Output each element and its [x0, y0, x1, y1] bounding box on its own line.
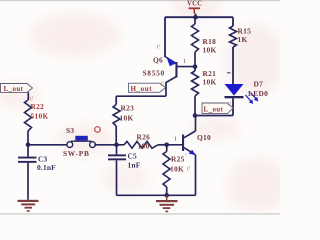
label R15	[238, 27, 252, 36]
wire Q6 collector down and left to R23	[116, 82, 166, 105]
border frame top	[0, 1, 280, 214]
label Q6	[153, 56, 163, 65]
wire S3 to mid junction	[94, 144, 124, 146]
label S3	[66, 126, 74, 135]
junction R26 / R25 / Q10 base	[164, 143, 169, 148]
svg-text:0.1nF: 0.1nF	[37, 163, 56, 172]
svg-text:D7: D7	[254, 80, 264, 89]
label R25	[171, 155, 185, 164]
part marker near L_out port	[228, 100, 232, 107]
resistor R18	[192, 17, 199, 66]
label R18	[203, 37, 217, 46]
part marker near H_out	[161, 80, 165, 87]
resistor R22	[25, 100, 32, 145]
svg-text:LED0: LED0	[248, 89, 268, 98]
svg-text:(¹: (¹	[30, 95, 34, 102]
transistor Q10	[167, 116, 196, 196]
capacitor C5	[108, 145, 126, 196]
junction R21 / Q10 collector / L_out	[193, 113, 198, 118]
svg-text:VCC: VCC	[187, 1, 202, 8]
value 1nF of C5	[128, 161, 141, 170]
wire L_out node horizontal	[195, 115, 233, 117]
resistor R21	[192, 67, 199, 116]
wire top rail	[165, 16, 233, 18]
wire port to R22	[27, 92, 29, 100]
svg-text:R25: R25	[171, 155, 185, 164]
svg-text:510K: 510K	[31, 112, 49, 121]
value 100 of R26	[138, 142, 150, 151]
svg-text:R23: R23	[121, 104, 135, 113]
power VCC symbol	[187, 1, 202, 14]
svg-text:1K: 1K	[238, 35, 248, 44]
part marker circle near S3	[95, 127, 101, 133]
wire VCC stem to top rail	[195, 14, 197, 18]
svg-text:Q10: Q10	[197, 133, 211, 142]
pin 1 Q6 base	[183, 58, 186, 65]
label R22	[31, 102, 45, 111]
resistor R15	[230, 17, 237, 84]
label LED0	[248, 89, 268, 98]
wire bottom rail	[117, 194, 196, 196]
LED arrows	[246, 93, 259, 105]
svg-text:R22: R22	[31, 102, 45, 111]
junction Q6 base / R18 / R21	[193, 64, 198, 69]
value 510K of R22	[31, 112, 49, 121]
pin 1 Q10 base	[174, 136, 177, 143]
junction R25 / ground	[164, 193, 169, 198]
svg-text:R26: R26	[137, 133, 151, 142]
part marker near R22	[30, 95, 34, 102]
capacitor C3	[18, 145, 37, 200]
svg-text:S3: S3	[66, 126, 74, 135]
svg-text:10K: 10K	[203, 46, 217, 55]
part marker after 10K	[187, 165, 191, 172]
label C5	[128, 152, 138, 161]
label R21	[203, 69, 217, 78]
port H_out	[129, 83, 166, 93]
part marker near Q6	[157, 43, 161, 50]
junction VCC node	[193, 15, 198, 20]
resistor R25	[163, 145, 170, 196]
label SW-PB	[63, 149, 90, 158]
part marker after R25	[185, 153, 187, 159]
svg-text:(¹: (¹	[187, 165, 191, 172]
svg-text:(¹: (¹	[157, 43, 161, 50]
svg-text:10K: 10K	[170, 165, 184, 174]
value 10K of R25	[170, 165, 184, 174]
label R26	[137, 133, 151, 142]
svg-text:1nF: 1nF	[128, 161, 141, 170]
svg-text:C5: C5	[128, 152, 138, 161]
value 10K of R18	[203, 46, 217, 55]
svg-text:(¹: (¹	[161, 80, 165, 87]
svg-text:(¹: (¹	[228, 100, 232, 107]
svg-text:1: 1	[174, 136, 177, 143]
wire left rail to Q6 emitter	[164, 17, 166, 57]
diode LED D7	[225, 84, 244, 116]
label C3	[38, 155, 48, 164]
svg-text:H_out: H_out	[131, 85, 153, 93]
svg-text:SW-PB: SW-PB	[63, 149, 90, 158]
port L_out left	[1, 84, 33, 93]
junction R22 / C3 / switch wire	[26, 143, 31, 148]
ground under C3	[18, 200, 39, 212]
junction R23 / C5 node	[114, 143, 119, 148]
svg-text:100: 100	[138, 142, 150, 151]
svg-text:L_out: L_out	[204, 106, 224, 114]
wire junction to S3	[28, 144, 67, 146]
svg-text:10K: 10K	[203, 78, 217, 87]
label R23	[121, 104, 135, 113]
svg-text:10K: 10K	[120, 114, 134, 123]
value 10K of R23	[120, 114, 134, 123]
resistor R23	[113, 105, 120, 145]
svg-text:L_out: L_out	[4, 85, 24, 93]
ground under R25	[156, 195, 178, 212]
value 1K of R15	[238, 35, 248, 44]
label D7	[254, 80, 264, 89]
svg-text:Q6: Q6	[153, 56, 163, 65]
label Q10	[197, 133, 211, 142]
resistor R26	[124, 141, 167, 148]
label S8550	[143, 69, 165, 78]
value 0.1nF of C3	[37, 163, 56, 172]
value 10K of R21	[203, 78, 217, 87]
svg-text:S8550: S8550	[143, 69, 165, 78]
svg-text:1: 1	[183, 58, 186, 65]
LED D7 pin mark	[227, 72, 231, 74]
transistor Q6	[165, 57, 195, 83]
switch S3 SW-PB	[67, 136, 96, 148]
port L_out right	[202, 103, 233, 114]
